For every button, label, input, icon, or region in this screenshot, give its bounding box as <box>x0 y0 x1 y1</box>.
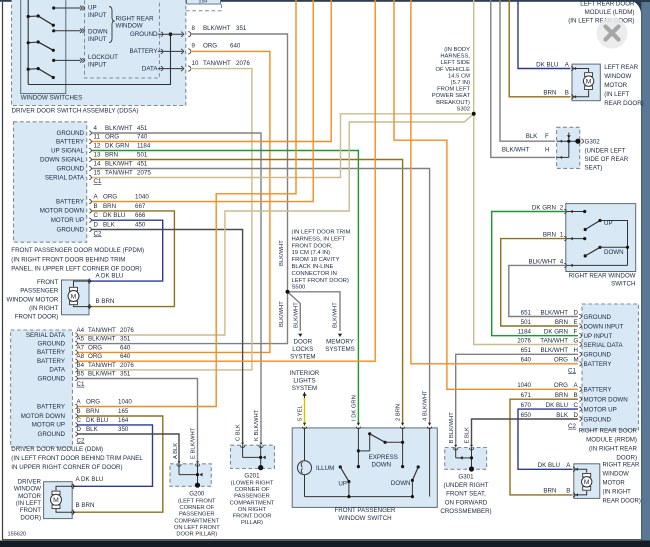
svg-text:SERIAL DATA: SERIAL DATA <box>26 332 66 339</box>
svg-text:MOTOR: MOTOR <box>603 480 626 486</box>
svg-text:UP: UP <box>88 5 97 12</box>
svg-text:FROM 18 CAVITY: FROM 18 CAVITY <box>292 257 340 263</box>
svg-text:E BLK: E BLK <box>465 427 471 444</box>
svg-text:BRN: BRN <box>555 392 568 399</box>
svg-text:155620: 155620 <box>8 532 27 538</box>
svg-text:HARNESS,: HARNESS, <box>440 54 470 60</box>
svg-text:ORG: ORG <box>103 194 117 201</box>
svg-text:IN UPPER RIGHT CORNER OF DOOR): IN UPPER RIGHT CORNER OF DOOR) <box>11 464 122 471</box>
svg-text:GROUND: GROUND <box>57 226 85 233</box>
svg-text:(LEFT FRONT: (LEFT FRONT <box>178 499 216 505</box>
svg-text:WINDOW SWITCHES: WINDOW SWITCHES <box>21 95 83 102</box>
svg-text:BLK/WHT: BLK/WHT <box>105 161 133 168</box>
svg-text:(UNDER LEFT: (UNDER LEFT <box>585 148 626 155</box>
svg-text:UP: UP <box>604 220 613 227</box>
svg-text:CORNER OF: CORNER OF <box>179 505 214 511</box>
svg-text:A8: A8 <box>77 353 85 360</box>
svg-text:DK BLU: DK BLU <box>86 417 108 424</box>
svg-text:I DK GRN: I DK GRN <box>351 395 357 421</box>
svg-text:BATTERY: BATTERY <box>584 387 612 394</box>
svg-text:INPUT: INPUT <box>88 12 107 19</box>
svg-text:(IN LEFT: (IN LEFT <box>604 91 629 98</box>
svg-text:BRN: BRN <box>555 319 568 326</box>
svg-text:BLK: BLK <box>86 426 99 433</box>
svg-text:REAR DOOR): REAR DOOR) <box>604 100 644 107</box>
svg-text:UP INPUT: UP INPUT <box>584 333 613 340</box>
svg-text:DOWN SIGNAL: DOWN SIGNAL <box>40 156 85 163</box>
svg-text:A4: A4 <box>77 327 85 334</box>
svg-text:13: 13 <box>94 152 101 159</box>
svg-text:SIDE OF REAR: SIDE OF REAR <box>585 156 629 163</box>
svg-text:10: 10 <box>192 60 199 67</box>
svg-text:PASSENGER: PASSENGER <box>20 288 59 295</box>
svg-text:G200: G200 <box>189 491 205 498</box>
svg-text:LOCKS: LOCKS <box>292 346 313 353</box>
svg-text:INPUT: INPUT <box>88 61 107 68</box>
svg-text:DOWN: DOWN <box>391 480 411 487</box>
svg-text:D: D <box>574 309 579 316</box>
svg-text:B BLK/WHT: B BLK/WHT <box>449 412 455 444</box>
svg-text:FRONT PASSENGER DOOR MODULE (F: FRONT PASSENGER DOOR MODULE (FPDM) <box>11 247 144 254</box>
svg-text:C: C <box>574 402 579 409</box>
svg-text:GROUND: GROUND <box>584 314 612 321</box>
svg-text:E: E <box>574 319 578 326</box>
svg-text:G201: G201 <box>244 473 260 480</box>
svg-text:450: 450 <box>135 222 146 229</box>
svg-text:BATTERY: BATTERY <box>56 198 84 205</box>
svg-text:351: 351 <box>236 25 247 32</box>
svg-text:1040: 1040 <box>135 194 149 201</box>
svg-text:MOTOR DOWN: MOTOR DOWN <box>40 208 84 215</box>
svg-text:(IN LEFT DOOR TRIM: (IN LEFT DOOR TRIM <box>292 230 351 236</box>
svg-text:UP SIGNAL: UP SIGNAL <box>51 147 84 154</box>
svg-text:FRONT: FRONT <box>37 279 59 286</box>
svg-text:M: M <box>71 293 77 300</box>
svg-text:DATA: DATA <box>49 367 65 374</box>
svg-text:640: 640 <box>120 353 131 360</box>
svg-text:14.5 CM: 14.5 CM <box>448 73 470 79</box>
svg-text:G301: G301 <box>458 474 474 481</box>
svg-text:SYSTEM: SYSTEM <box>290 354 315 361</box>
svg-text:G: G <box>574 337 579 344</box>
svg-text:(IN RIGHT FRONT DOOR BEHIND TR: (IN RIGHT FRONT DOOR BEHIND TRIM <box>11 256 125 263</box>
svg-text:LIGHTS: LIGHTS <box>293 377 315 384</box>
svg-text:FRONT PASSENGER: FRONT PASSENGER <box>335 507 396 514</box>
svg-text:BLK/WHT: BLK/WHT <box>105 125 133 132</box>
svg-text:INTERIOR: INTERIOR <box>290 370 320 377</box>
svg-text:BATTERY: BATTERY <box>130 48 158 55</box>
svg-text:ON FORWARD: ON FORWARD <box>445 499 488 506</box>
svg-text:ON RIGHT: ON RIGHT <box>238 507 267 513</box>
svg-text:WINDOW: WINDOW <box>116 23 143 30</box>
svg-text:F: F <box>545 133 549 140</box>
svg-text:8: 8 <box>192 25 196 32</box>
svg-text:2076: 2076 <box>236 60 250 67</box>
svg-text:BATTERY: BATTERY <box>37 358 65 365</box>
svg-text:BLK/WHT: BLK/WHT <box>88 371 116 378</box>
svg-text:ON LEFT FRONT: ON LEFT FRONT <box>174 525 220 531</box>
svg-text:(LOWER RIGHT: (LOWER RIGHT <box>231 481 274 487</box>
svg-text:DRIVER: DRIVER <box>18 478 42 485</box>
svg-text:K BLK/WHT: K BLK/WHT <box>254 409 260 441</box>
svg-text:M: M <box>574 357 579 364</box>
svg-text:GROUND: GROUND <box>38 375 66 382</box>
svg-text:H: H <box>574 347 578 354</box>
svg-text:DK BLU: DK BLU <box>536 62 558 69</box>
svg-text:2 BRN: 2 BRN <box>396 404 402 421</box>
svg-text:(IN RIGHT REAR: (IN RIGHT REAR <box>589 446 638 453</box>
svg-text:DOOR: DOOR <box>294 339 313 346</box>
svg-text:ORG: ORG <box>88 353 102 360</box>
svg-text:9: 9 <box>192 43 196 50</box>
svg-text:BLACK IN-LINE: BLACK IN-LINE <box>292 264 334 270</box>
svg-text:MEMORY: MEMORY <box>326 339 354 346</box>
svg-text:671: 671 <box>521 392 532 399</box>
svg-text:501: 501 <box>137 152 148 159</box>
svg-text:B4: B4 <box>77 362 85 369</box>
svg-text:FRONT DOOR): FRONT DOOR) <box>15 314 59 321</box>
svg-text:164: 164 <box>118 417 129 424</box>
svg-text:HARNESS, IN LEFT: HARNESS, IN LEFT <box>292 236 346 242</box>
svg-text:M: M <box>53 497 59 504</box>
svg-text:WINDOW: WINDOW <box>14 486 41 493</box>
svg-text:BATTERY: BATTERY <box>56 138 84 145</box>
svg-text:WINDOW MOTOR: WINDOW MOTOR <box>7 296 59 303</box>
svg-text:640: 640 <box>230 43 241 50</box>
svg-text:11: 11 <box>94 134 101 141</box>
svg-text:TAN/WHT: TAN/WHT <box>105 170 133 177</box>
svg-text:DOOR): DOOR) <box>616 455 637 462</box>
svg-text:351: 351 <box>120 371 131 378</box>
svg-text:RIGHT REAR: RIGHT REAR <box>116 15 155 22</box>
svg-text:(IN LEFT: (IN LEFT <box>16 500 41 507</box>
svg-text:LEFT FRONT DOOR): LEFT FRONT DOOR) <box>292 278 349 284</box>
svg-text:DK BLU: DK BLU <box>538 462 560 469</box>
svg-text:DRIVER DOOR SWITCH ASSEMBLY (D: DRIVER DOOR SWITCH ASSEMBLY (DDSA) <box>12 108 139 115</box>
svg-text:(IN LEFT FRONT DOOR BEHIND TRI: (IN LEFT FRONT DOOR BEHIND TRIM PANEL <box>11 455 143 462</box>
svg-text:RIGHT REAR DOOR: RIGHT REAR DOOR <box>579 428 638 435</box>
svg-text:DOWN: DOWN <box>88 29 108 36</box>
svg-text:TAN/WHT: TAN/WHT <box>540 337 568 344</box>
svg-text:SERIAL DATA: SERIAL DATA <box>45 174 85 181</box>
svg-text:INPUT: INPUT <box>88 36 107 43</box>
svg-text:COMPARTMENT: COMPARTMENT <box>230 500 275 506</box>
svg-text:ORG: ORG <box>105 134 119 141</box>
svg-text:MODULE (RRDM): MODULE (RRDM) <box>586 437 637 444</box>
svg-text:C: C <box>77 417 82 424</box>
svg-text:MOTOR: MOTOR <box>18 493 41 500</box>
svg-text:FRONT DOOR: FRONT DOOR <box>233 514 272 520</box>
svg-text:(IN RIGHT: (IN RIGHT <box>29 305 58 312</box>
svg-text:DK BLU: DK BLU <box>546 402 568 409</box>
svg-text:BLK/WHT: BLK/WHT <box>88 336 116 343</box>
svg-text:BLK/WHT: BLK/WHT <box>203 25 231 32</box>
svg-text:S302: S302 <box>456 106 470 112</box>
svg-text:TAN/WHT: TAN/WHT <box>88 362 116 369</box>
svg-text:MOTOR UP: MOTOR UP <box>32 422 65 429</box>
svg-text:640: 640 <box>120 344 131 351</box>
svg-text:165: 165 <box>118 408 129 415</box>
svg-text:DOOR PILLAR): DOOR PILLAR) <box>176 532 217 538</box>
svg-text:651: 651 <box>521 309 532 316</box>
svg-text:BLK/WHT: BLK/WHT <box>540 309 568 316</box>
svg-text:SERIAL DATA: SERIAL DATA <box>584 342 624 349</box>
svg-text:MODULE (LRDM): MODULE (LRDM) <box>585 9 635 16</box>
svg-text:DK BLU: DK BLU <box>103 212 125 219</box>
svg-text:FRONT DOOR,: FRONT DOOR, <box>292 243 333 249</box>
svg-text:B: B <box>566 487 570 494</box>
svg-text:ORG: ORG <box>203 43 217 50</box>
svg-text:BRN: BRN <box>543 487 556 494</box>
svg-text:CORNER OF: CORNER OF <box>235 487 270 493</box>
svg-text:F: F <box>574 329 578 336</box>
svg-text:B BRN: B BRN <box>96 298 115 305</box>
svg-text:D: D <box>77 426 82 433</box>
svg-text:B: B <box>77 408 81 415</box>
svg-text:FROM LEFT: FROM LEFT <box>437 87 470 93</box>
svg-text:2076: 2076 <box>517 337 531 344</box>
svg-text:DK GRN: DK GRN <box>532 204 556 211</box>
svg-text:GROUND: GROUND <box>57 130 85 137</box>
svg-text:BRN: BRN <box>105 152 118 159</box>
svg-text:4: 4 <box>560 258 564 265</box>
svg-text:(5.7 IN): (5.7 IN) <box>451 80 470 86</box>
svg-text:4: 4 <box>94 125 98 132</box>
svg-text:15: 15 <box>94 170 101 177</box>
svg-text:1184: 1184 <box>518 329 532 336</box>
svg-text:RIGHT REAR WINDOW: RIGHT REAR WINDOW <box>569 272 636 279</box>
svg-text:DK GRN: DK GRN <box>544 329 568 336</box>
svg-text:2076: 2076 <box>120 362 134 369</box>
svg-text:SWITCH: SWITCH <box>611 281 635 288</box>
svg-text:B5: B5 <box>77 371 85 378</box>
svg-text:A5: A5 <box>77 336 85 343</box>
svg-text:LOCKOUT: LOCKOUT <box>88 54 118 61</box>
svg-text:PASSENGER: PASSENGER <box>179 512 215 518</box>
svg-text:TAN/WHT: TAN/WHT <box>88 327 116 334</box>
svg-text:ORG: ORG <box>88 344 102 351</box>
svg-text:BLK/WHT: BLK/WHT <box>279 301 285 327</box>
svg-text:B: B <box>565 90 569 97</box>
svg-text:451: 451 <box>137 125 148 132</box>
svg-text:B: B <box>574 392 578 399</box>
svg-text:BLK/WHT: BLK/WHT <box>540 347 568 354</box>
svg-text:2076: 2076 <box>120 327 134 334</box>
svg-text:BATTERY: BATTERY <box>37 349 65 356</box>
svg-text:BLK/WHT: BLK/WHT <box>528 258 556 265</box>
svg-text:BLK: BLK <box>526 133 539 140</box>
svg-text:740: 740 <box>137 134 148 141</box>
svg-text:ILLUM: ILLUM <box>316 465 334 472</box>
svg-text:DOOR): DOOR) <box>20 514 41 521</box>
svg-text:LEFT SIDE: LEFT SIDE <box>441 60 470 66</box>
svg-text:DOWN: DOWN <box>604 249 624 256</box>
svg-text:2075: 2075 <box>137 170 151 177</box>
svg-text:DOWN: DOWN <box>372 461 392 468</box>
svg-text:(LDM: (LDM <box>199 0 208 4</box>
svg-text:B: B <box>94 203 98 210</box>
svg-text:501: 501 <box>521 319 532 326</box>
svg-text:MOTOR UP: MOTOR UP <box>584 407 617 414</box>
svg-text:BLK: BLK <box>103 222 116 229</box>
svg-text:COMPARTMENT: COMPARTMENT <box>174 518 219 524</box>
svg-text:WINDOW SWITCH: WINDOW SWITCH <box>338 515 391 522</box>
svg-text:2: 2 <box>560 204 564 211</box>
svg-text:GROUND: GROUND <box>38 340 66 347</box>
svg-text:GROUND: GROUND <box>130 31 158 38</box>
svg-text:BLK/WHT: BLK/WHT <box>332 302 338 328</box>
svg-text:WINDOW: WINDOW <box>603 471 630 477</box>
svg-text:BLK/WHT: BLK/WHT <box>279 240 285 266</box>
svg-text:MOTOR DOWN: MOTOR DOWN <box>21 413 65 420</box>
svg-text:FRONT: FRONT <box>20 507 42 514</box>
svg-text:BATTERY: BATTERY <box>584 361 612 368</box>
svg-text:A BLK: A BLK <box>173 443 179 459</box>
svg-text:C BLK: C BLK <box>236 424 242 441</box>
svg-text:PILLAR): PILLAR) <box>241 520 263 526</box>
svg-text:SEAT): SEAT) <box>585 165 603 172</box>
svg-text:BLK: BLK <box>556 412 569 419</box>
svg-text:WINDOW: WINDOW <box>604 73 631 80</box>
svg-text:666: 666 <box>135 212 146 219</box>
svg-text:350: 350 <box>118 426 129 433</box>
svg-text:1040: 1040 <box>118 399 132 406</box>
svg-text:S500: S500 <box>292 285 306 291</box>
svg-text:A7: A7 <box>77 344 85 351</box>
svg-text:640: 640 <box>521 357 532 364</box>
svg-text:M: M <box>586 79 592 86</box>
svg-text:(IN RIGHT: (IN RIGHT <box>603 489 632 495</box>
svg-text:EXPRESS: EXPRESS <box>369 454 398 461</box>
svg-text:ORG: ORG <box>554 382 568 389</box>
svg-text:1: 1 <box>560 232 564 239</box>
svg-text:BRN: BRN <box>543 232 556 239</box>
svg-text:1040: 1040 <box>517 382 531 389</box>
svg-text:GROUND: GROUND <box>584 352 612 359</box>
svg-text:A DK BLU: A DK BLU <box>96 272 124 279</box>
svg-text:TAN/WHT: TAN/WHT <box>203 60 231 67</box>
svg-text:SYSTEM: SYSTEM <box>292 385 317 392</box>
svg-text:H: H <box>545 146 549 153</box>
svg-text:ORG: ORG <box>554 357 568 364</box>
svg-text:A DK BLU: A DK BLU <box>76 476 104 483</box>
svg-text:D: D <box>94 222 99 229</box>
svg-text:1184: 1184 <box>137 143 151 150</box>
svg-text:451: 451 <box>137 161 148 168</box>
svg-text:POWER SEAT: POWER SEAT <box>432 93 471 99</box>
svg-text:GROUND: GROUND <box>584 416 612 423</box>
svg-text:E BLK/WHT: E BLK/WHT <box>190 427 196 459</box>
svg-text:(UNDER RIGHT: (UNDER RIGHT <box>443 482 488 489</box>
svg-text:351: 351 <box>120 336 131 343</box>
svg-text:BLK/WHT: BLK/WHT <box>294 302 300 328</box>
svg-text:BATTERY: BATTERY <box>37 403 65 410</box>
svg-text:651: 651 <box>521 347 532 354</box>
svg-text:GROUND: GROUND <box>38 431 66 438</box>
svg-text:B BRN: B BRN <box>76 502 95 509</box>
svg-text:MOTOR: MOTOR <box>604 82 627 89</box>
svg-text:MOTOR UP: MOTOR UP <box>51 217 84 224</box>
svg-text:RIGHT REAR: RIGHT REAR <box>603 462 641 468</box>
svg-text:670: 670 <box>521 402 532 409</box>
svg-text:CROSSMEMBER): CROSSMEMBER) <box>440 508 491 515</box>
svg-text:PASSENGER: PASSENGER <box>234 494 270 500</box>
svg-text:D: D <box>574 412 579 419</box>
svg-text:BRN: BRN <box>103 203 116 210</box>
svg-text:G302: G302 <box>585 139 601 146</box>
svg-text:BRN: BRN <box>86 408 99 415</box>
svg-text:MOTOR DOWN: MOTOR DOWN <box>584 397 628 404</box>
svg-text:BREAKOUT): BREAKOUT) <box>436 100 470 106</box>
svg-text:SYSTEMS: SYSTEMS <box>325 346 355 353</box>
svg-text:M: M <box>584 479 590 486</box>
svg-text:DK GRN: DK GRN <box>105 143 129 150</box>
svg-text:FRONT SEAT,: FRONT SEAT, <box>446 491 486 498</box>
svg-text:(IN BODY: (IN BODY <box>444 47 470 53</box>
svg-text:BLK/WHT: BLK/WHT <box>502 146 530 153</box>
svg-text:DRIVER DOOR MODULE (DDM): DRIVER DOOR MODULE (DDM) <box>11 446 103 453</box>
svg-text:REAR DOOR): REAR DOOR) <box>603 498 641 504</box>
svg-text:OF VEHICLE: OF VEHICLE <box>436 67 471 73</box>
svg-text:12: 12 <box>94 143 101 150</box>
svg-text:DOWN INPUT: DOWN INPUT <box>584 323 624 330</box>
svg-text:LEFT REAR: LEFT REAR <box>604 64 638 71</box>
svg-text:667: 667 <box>135 203 146 210</box>
svg-text:GROUND: GROUND <box>57 165 85 172</box>
svg-text:14: 14 <box>94 161 101 168</box>
svg-text:5 YEL: 5 YEL <box>298 405 304 421</box>
svg-text:19 CM (7.4 IN): 19 CM (7.4 IN) <box>292 250 331 256</box>
svg-text:LEFT REAR DOOR: LEFT REAR DOOR <box>580 1 635 8</box>
svg-text:650: 650 <box>521 412 532 419</box>
svg-text:UP: UP <box>338 480 347 487</box>
svg-text:CONNECTOR IN: CONNECTOR IN <box>292 271 337 277</box>
svg-text:C: C <box>94 212 99 219</box>
svg-text:ORG: ORG <box>86 399 100 406</box>
svg-text:DATA: DATA <box>142 65 158 72</box>
svg-text:4 BLK/WHT: 4 BLK/WHT <box>423 390 429 421</box>
svg-text:BRN: BRN <box>543 90 556 97</box>
